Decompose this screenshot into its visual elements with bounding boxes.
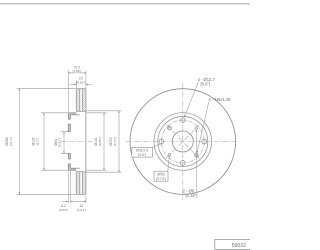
friction ID cap top (76, 110, 86, 112)
dim line dia 132 (43, 113, 45, 170)
lug hole N (180, 118, 185, 123)
hatch hat flange lower (68, 153, 70, 158)
dim line dia 172 (118, 111, 120, 172)
hat wall outer line bottom (68, 169, 76, 171)
dim line 41 (70, 200, 86, 202)
svg-text:[1.86"]: [1.86"] (73, 69, 82, 73)
hat outer circle (158, 117, 208, 167)
vent gap wall right lower (82, 172, 84, 195)
hat wall outer line top (68, 112, 76, 114)
svg-text:[0.26"]: [0.26"] (186, 193, 198, 198)
svg-text:[0.24"]: [0.24"] (59, 208, 68, 212)
hat wall inner line top (70, 114, 79, 116)
hat mounting face upper segment (67, 113, 69, 132)
diagonal centerline 135deg (166, 125, 199, 159)
friction ID cap bottom (76, 171, 86, 173)
ext lines dia 132 (41, 113, 68, 170)
dim line 23 outside arrows (71, 84, 77, 86)
disc OD bottom edge (76, 193, 86, 195)
lug bolt hole edges upper (68, 119, 70, 124)
hatch lower left plate (76, 172, 79, 194)
hat flange inner face upper segment (69, 115, 71, 132)
leader 4-dia12.7 (184, 82, 198, 118)
hat wall inner line bottom (70, 167, 79, 169)
ext lines dia 141 right (87, 113, 107, 170)
svg-text:[3.74"]: [3.74"] (156, 177, 166, 181)
boxed label dia 114.3 bolt circle (152, 144, 161, 148)
hat flange inner face lower segment (69, 153, 71, 168)
hatch upper right plate (83, 89, 86, 111)
svg-text:Ø95: Ø95 (157, 173, 164, 177)
leader 2-M8x1.25 (197, 102, 209, 153)
svg-text:Ø114.3: Ø114.3 (136, 149, 148, 153)
leader 2-dia6.7 (195, 130, 197, 188)
lug hole E (202, 139, 207, 144)
dim line dia 141 (103, 113, 105, 170)
friction ID circle (154, 113, 212, 171)
lug hole S (180, 161, 185, 166)
hatch lower right plate (83, 172, 86, 194)
hatch upper left plate (76, 89, 79, 111)
svg-text:[1.61"]: [1.61"] (77, 208, 86, 212)
center bore circle (172, 131, 193, 152)
small hole dia 6.7 upper-right (195, 127, 198, 130)
disc OD top edge (76, 88, 86, 90)
vent gap wall left upper (79, 89, 81, 112)
page background (0, 0, 250, 250)
small hole dia 6.7 lower-left (168, 154, 171, 157)
outer circle dia 282 (130, 89, 236, 195)
hatch hat flange upper (68, 113, 70, 119)
vent gap wall right upper (82, 89, 84, 112)
ext lines 47.2 top (68, 71, 86, 113)
ext line bottom 41 (85, 196, 87, 204)
svg-text:[5.2"]: [5.2"] (35, 138, 39, 145)
dim line 47.2 (68, 72, 86, 74)
hat mounting face lower segment (67, 153, 69, 170)
M8 tapped hole lower-right (194, 153, 198, 157)
svg-text:[0.5"]: [0.5"] (201, 82, 211, 87)
diagonal centerline 45deg (166, 125, 200, 159)
center bore edge bottom (68, 152, 70, 154)
ext line 23 (75, 81, 77, 89)
title block box bottom right (215, 240, 251, 250)
horizontal centerline (126, 141, 240, 143)
hatch hat wall strip top (71, 113, 77, 115)
svg-text:[2.52"]: [2.52"] (58, 138, 62, 147)
svg-text:[11.1"]: [11.1"] (9, 137, 13, 146)
ext lines dia 172 right (87, 111, 122, 172)
lug bolt hole edges lower (68, 159, 70, 164)
ext lines OD 282 (17, 89, 77, 195)
svg-text:2 - M8x1.25: 2 - M8x1.25 (209, 97, 232, 102)
dim line 6.2 outside arrow (62, 200, 68, 202)
disc outer (right) friction face (85, 89, 87, 195)
svg-text:[6.77"]: [6.77"] (113, 137, 117, 146)
ext lines dia 64 (61, 132, 68, 154)
M8 tapped hole upper-left (168, 126, 172, 130)
lug hole W (159, 139, 164, 144)
disc inner (left) friction face lower (75, 172, 77, 195)
top border line of drawing sheet (0, 3, 250, 5)
hatch hat wall strip bottom (71, 168, 77, 170)
dim line dia 64 (63, 132, 65, 154)
vent gap wall left lower (79, 172, 81, 195)
svg-text:[5.55"]: [5.55"] (98, 137, 102, 146)
vertical centerline (182, 83, 184, 200)
section view horizontal centerline (61, 141, 94, 143)
disc inner (left) friction face upper (75, 89, 77, 112)
svg-text:59022: 59022 (232, 243, 247, 249)
svg-text:[4.5"]: [4.5"] (138, 153, 146, 157)
svg-text:[0.91"]: [0.91"] (76, 80, 85, 84)
ext lines bottom 6.2 (68, 170, 70, 204)
boxed label dia 95 service hole circle (168, 157, 170, 172)
dim line dia 282 (19, 89, 21, 195)
center bore edge top (68, 131, 70, 133)
bolt circle dia 114.3 dashed (161, 120, 204, 163)
